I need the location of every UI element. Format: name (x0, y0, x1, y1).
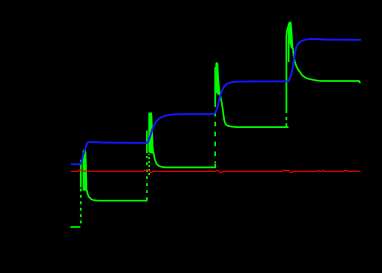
green step2 input vertical (dotted lower, solid top) (146, 156, 148, 200)
green step2 spike core (filled) (149, 113, 154, 154)
red baseline (error) trace (71, 170, 361, 172)
green step1 input vertical (dotted lower, solid top) (80, 189, 82, 227)
green step1 spike core (filled) (83, 150, 87, 190)
green initial plateau (70, 226, 80, 228)
green step4 input vertical (dotted lower, solid top) (285, 115, 287, 127)
green step3 knee + plateau3 (220, 96, 288, 128)
blue response trace (71, 39, 361, 164)
green step4 fall + final plateau (293, 48, 361, 82)
green step2 knee + plateau2 (154, 153, 217, 168)
green step4 spike core (filled) (288, 22, 293, 49)
green step3 spike core (filled) (216, 63, 220, 96)
green step2 spike rise dots (148, 154, 150, 175)
green step1 knee + plateau1 (87, 190, 148, 201)
green step3 input vertical (dotted lower, solid top) (214, 164, 216, 168)
